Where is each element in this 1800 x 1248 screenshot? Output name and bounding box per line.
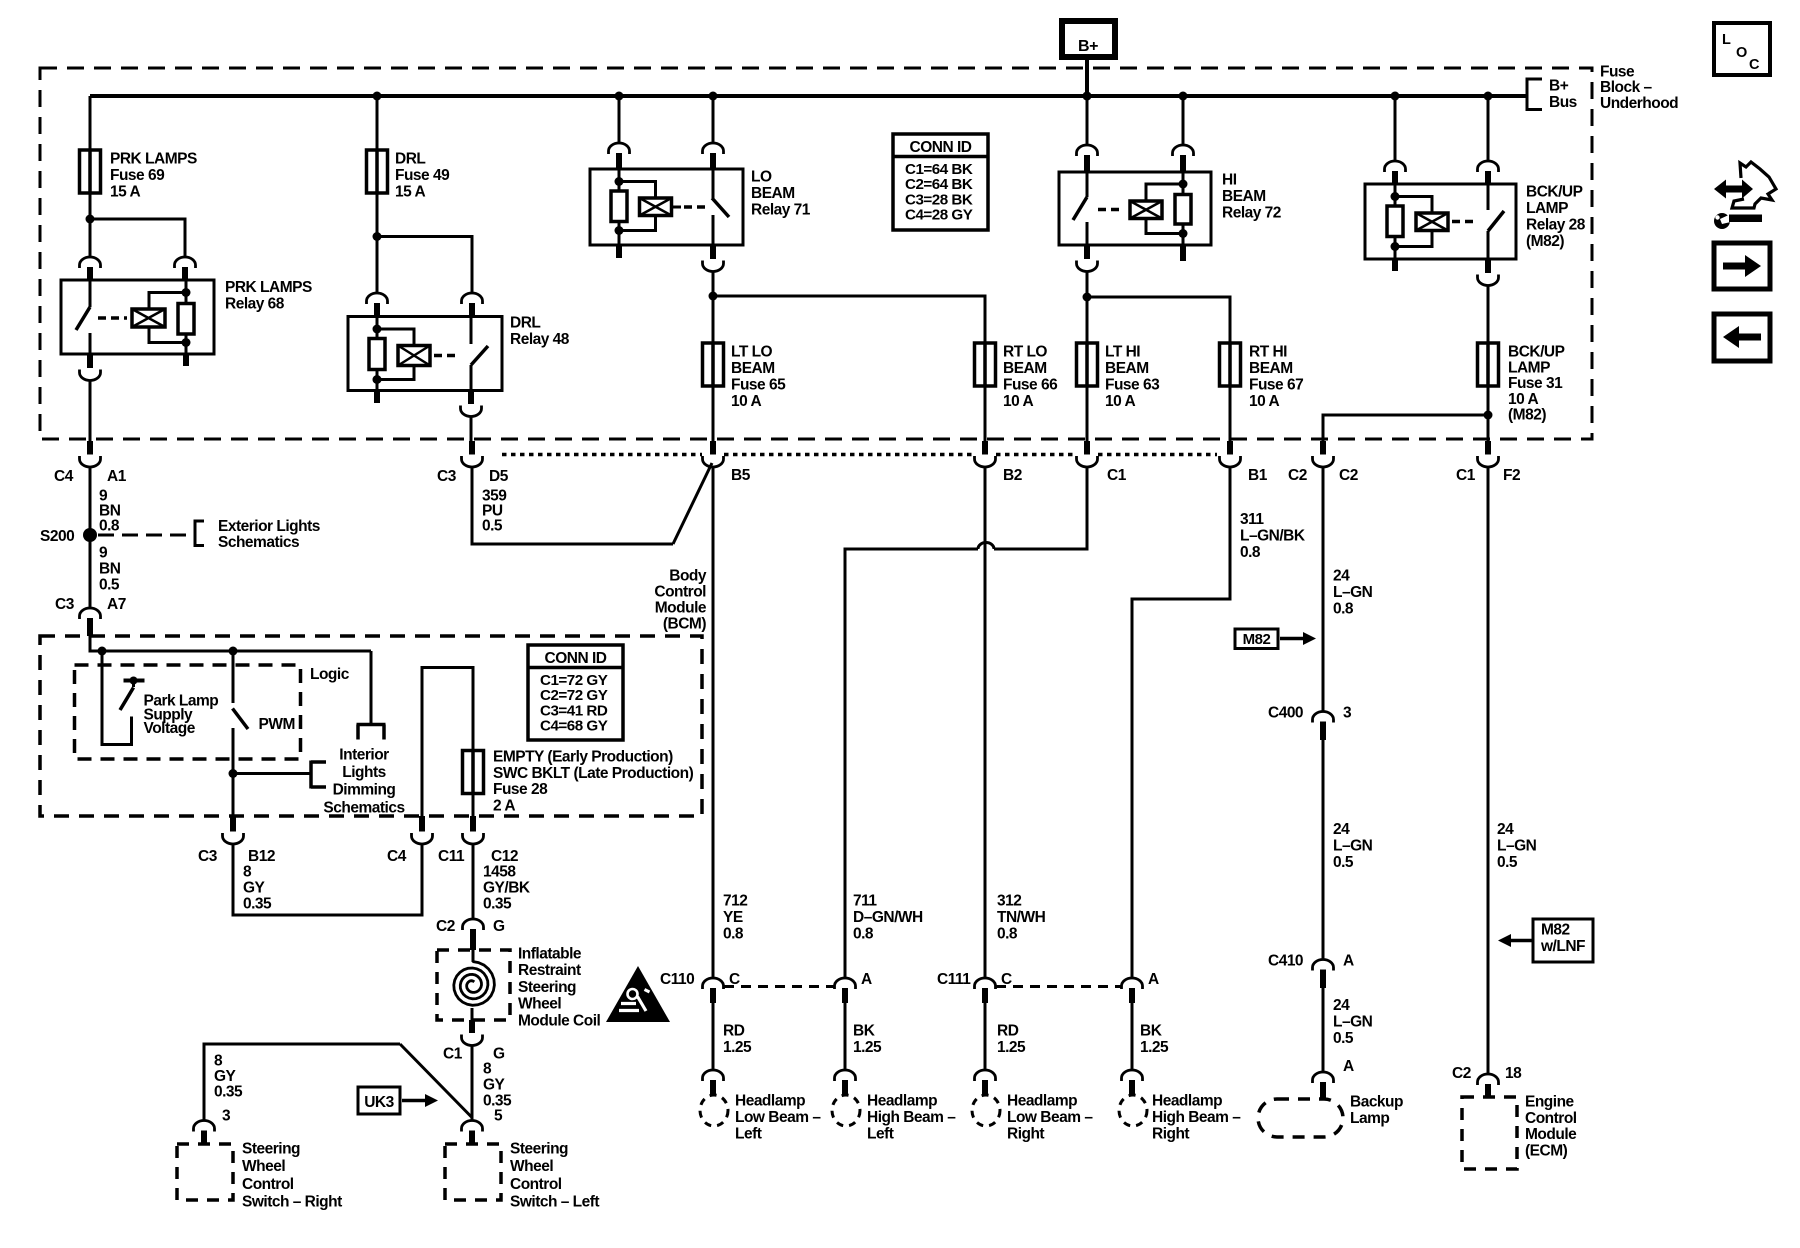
svg-text:F2: F2 bbox=[1503, 467, 1520, 484]
svg-text:Module: Module bbox=[1525, 1126, 1577, 1143]
svg-text:15 A: 15 A bbox=[395, 184, 425, 201]
svg-text:8: 8 bbox=[214, 1053, 223, 1070]
wire C12 to coil bbox=[472, 845, 475, 920]
svg-text:Right: Right bbox=[1152, 1126, 1189, 1143]
forward arrow box bbox=[1714, 243, 1770, 289]
svg-text:Backup: Backup bbox=[1350, 1094, 1403, 1111]
wire hop over B2 wire bbox=[978, 543, 994, 550]
svg-text:Control: Control bbox=[242, 1176, 294, 1193]
connector pin relay 71 right bbox=[703, 143, 724, 154]
fuse F65 LT LO BEAM 10A bbox=[703, 343, 724, 386]
node bracket dimming out bbox=[311, 761, 326, 789]
logic dashed box bbox=[75, 665, 301, 759]
wire A7 into BCM bbox=[90, 636, 371, 651]
wire B5 to C110 bbox=[712, 467, 715, 979]
svg-text:C4=28 GY: C4=28 GY bbox=[905, 207, 973, 224]
svg-text:(BCM): (BCM) bbox=[663, 616, 706, 633]
svg-text:PWM: PWM bbox=[259, 716, 295, 733]
connector pin relay 48 right bbox=[462, 293, 483, 304]
svg-text:YE: YE bbox=[723, 909, 743, 926]
svg-text:Fuse 28: Fuse 28 bbox=[493, 781, 548, 798]
svg-text:High Beam –: High Beam – bbox=[867, 1109, 956, 1126]
svg-text:24: 24 bbox=[1333, 997, 1350, 1014]
svg-text:Fuse 31: Fuse 31 bbox=[1508, 375, 1563, 392]
svg-text:L–GN: L–GN bbox=[1333, 1014, 1373, 1031]
wire to RT LO fuse bbox=[713, 296, 985, 343]
svg-text:Exterior Lights: Exterior Lights bbox=[218, 518, 320, 535]
svg-text:B+: B+ bbox=[1549, 78, 1569, 95]
junction fuse49 branch bbox=[373, 232, 382, 241]
connector C2/G coil top bbox=[463, 919, 484, 950]
connector C111 pin C bbox=[975, 978, 996, 1003]
wire logic out down bbox=[370, 651, 373, 725]
connector C1/G coil bottom bbox=[462, 1020, 483, 1046]
svg-text:A: A bbox=[1148, 971, 1159, 988]
wire F2 to ECM bbox=[1487, 467, 1490, 1075]
connector C400 pin 3 bbox=[1313, 712, 1334, 741]
svg-text:S200: S200 bbox=[40, 528, 74, 545]
connector pin relay 68 bottom-left bbox=[87, 354, 93, 368]
svg-text:BK: BK bbox=[853, 1023, 876, 1040]
svg-text:Fuse 65: Fuse 65 bbox=[731, 377, 786, 394]
svg-text:Headlamp: Headlamp bbox=[735, 1093, 805, 1110]
svg-text:GY/BK: GY/BK bbox=[483, 880, 531, 897]
svg-text:0.5: 0.5 bbox=[99, 577, 120, 594]
svg-text:DRL: DRL bbox=[510, 315, 540, 332]
svg-text:Headlamp: Headlamp bbox=[867, 1093, 937, 1110]
svg-text:Fuse 67: Fuse 67 bbox=[1249, 377, 1303, 394]
wire coil to switch left bbox=[471, 1046, 474, 1120]
svg-text:712: 712 bbox=[723, 893, 747, 910]
svg-text:C2: C2 bbox=[1452, 1065, 1471, 1082]
service icon wrench bbox=[1714, 213, 1762, 229]
relay K72 HI BEAM Relay 72 bbox=[1059, 172, 1211, 245]
junction bus HI switch bbox=[1083, 92, 1092, 101]
conn id table underhood bbox=[893, 134, 988, 230]
svg-text:BEAM: BEAM bbox=[1105, 360, 1149, 377]
clockspring spiral bbox=[454, 962, 495, 1006]
svg-text:C4=68 GY: C4=68 GY bbox=[540, 718, 608, 735]
svg-text:Relay 48: Relay 48 bbox=[510, 331, 570, 348]
connector C11/C12 bbox=[463, 816, 484, 844]
wire to lamp at x=845 bbox=[844, 1003, 847, 1070]
svg-text:C1: C1 bbox=[1107, 467, 1127, 484]
svg-text:Steering: Steering bbox=[518, 979, 576, 996]
junction backup split bbox=[1484, 411, 1493, 420]
wire relay 71 to fuses 65/66 bbox=[712, 271, 715, 343]
wire bus to relay 28 switch bbox=[1487, 96, 1490, 162]
svg-text:GY: GY bbox=[214, 1068, 237, 1085]
svg-text:C2: C2 bbox=[436, 918, 455, 935]
svg-text:Wheel: Wheel bbox=[510, 1158, 553, 1175]
svg-text:L–GN/BK: L–GN/BK bbox=[1240, 528, 1306, 545]
svg-text:10 A: 10 A bbox=[1003, 393, 1033, 410]
node B+ Bus terminal bracket bbox=[1527, 78, 1577, 112]
fuse block underhood dashed border bbox=[40, 68, 1592, 439]
lamp Low Beam – Left bbox=[700, 1095, 728, 1126]
svg-text:A: A bbox=[1343, 953, 1354, 970]
wire S200 to C3/A7 bbox=[89, 535, 92, 609]
svg-text:Fuse: Fuse bbox=[1600, 64, 1635, 81]
svg-text:LO: LO bbox=[751, 169, 772, 186]
svg-text:0.8: 0.8 bbox=[853, 926, 874, 943]
svg-text:0.35: 0.35 bbox=[243, 896, 272, 913]
svg-text:C2: C2 bbox=[1288, 467, 1307, 484]
svg-text:BEAM: BEAM bbox=[1249, 360, 1293, 377]
svg-text:0.8: 0.8 bbox=[1333, 601, 1354, 618]
wire to lamp at x=985 bbox=[984, 1003, 987, 1070]
svg-text:Steering: Steering bbox=[242, 1141, 300, 1158]
connector pin relay 28 right bbox=[1478, 161, 1499, 172]
wire bus to relay 72 switch bbox=[1086, 96, 1089, 146]
junction bus backup switch bbox=[1484, 92, 1493, 101]
svg-text:Module: Module bbox=[655, 600, 707, 617]
svg-text:G: G bbox=[493, 918, 505, 935]
svg-text:C2: C2 bbox=[1339, 467, 1358, 484]
svg-text:A: A bbox=[861, 971, 872, 988]
connector pin relay 71 bottom-right bbox=[710, 245, 716, 259]
svg-text:C12: C12 bbox=[491, 848, 518, 865]
svg-text:24: 24 bbox=[1497, 821, 1514, 838]
svg-text:B+: B+ bbox=[1078, 38, 1098, 55]
fuse F66 RT LO BEAM 10A bbox=[975, 343, 996, 386]
wire to RT HI fuse bbox=[1087, 297, 1230, 343]
svg-text:w/LNF: w/LNF bbox=[1540, 938, 1585, 955]
connector pin relay 68 right bbox=[175, 257, 196, 268]
svg-text:LT LO: LT LO bbox=[731, 344, 773, 361]
svg-text:C4: C4 bbox=[387, 848, 407, 865]
svg-text:RT HI: RT HI bbox=[1249, 344, 1287, 361]
svg-text:D5: D5 bbox=[489, 468, 509, 485]
svg-text:(M82): (M82) bbox=[1526, 233, 1564, 250]
connector C410 pin A bbox=[1313, 960, 1334, 989]
dashed link S200 to exterior lights bbox=[98, 534, 189, 537]
junction bus HI coil bbox=[1179, 92, 1188, 101]
inflatable restraint coil dashed box bbox=[437, 950, 510, 1020]
svg-text:BEAM: BEAM bbox=[1222, 188, 1266, 205]
svg-text:Control: Control bbox=[510, 1176, 562, 1193]
svg-text:M82: M82 bbox=[1541, 922, 1570, 939]
svg-text:Fuse 49: Fuse 49 bbox=[395, 167, 450, 184]
connector C3/A7 BCM bbox=[80, 608, 101, 636]
svg-text:L–GN: L–GN bbox=[1333, 584, 1373, 601]
svg-text:L–GN: L–GN bbox=[1497, 838, 1537, 855]
wire bus to relay 72 coil bbox=[1182, 96, 1185, 146]
wire branch to relay 48 switch pin bbox=[377, 237, 472, 294]
svg-text:Lamp: Lamp bbox=[1350, 1110, 1389, 1127]
pin stub relay 28 bottom-left bbox=[1392, 259, 1398, 271]
connector B5 bbox=[703, 441, 724, 467]
svg-text:15 A: 15 A bbox=[110, 184, 140, 201]
svg-text:24: 24 bbox=[1333, 821, 1350, 838]
svg-text:High Beam –: High Beam – bbox=[1152, 1109, 1241, 1126]
connector lamp pin at x=985 bbox=[975, 1070, 996, 1095]
svg-text:SWC BKLT (Late Production): SWC BKLT (Late Production) bbox=[493, 765, 694, 782]
wire coil stub top bbox=[472, 950, 475, 962]
svg-text:LAMP: LAMP bbox=[1508, 359, 1550, 376]
wire bus to fuse 49 bbox=[376, 96, 379, 150]
svg-text:CONN ID: CONN ID bbox=[545, 650, 607, 667]
connector C110 pin C bbox=[703, 978, 724, 1003]
wire B2 to C111 bbox=[984, 467, 987, 979]
wire B+ feed to bus bbox=[1085, 57, 1089, 96]
fuse F49 DRL 15A bbox=[367, 150, 388, 193]
svg-text:PRK LAMPS: PRK LAMPS bbox=[110, 151, 197, 168]
svg-text:BEAM: BEAM bbox=[1003, 360, 1047, 377]
wire D5 to BCM B5 bbox=[472, 467, 673, 545]
svg-text:C3: C3 bbox=[55, 596, 75, 613]
connector C1 hi beam bbox=[1077, 441, 1098, 467]
svg-text:Lights: Lights bbox=[342, 764, 386, 781]
svg-text:Relay 68: Relay 68 bbox=[225, 296, 285, 313]
svg-text:10 A: 10 A bbox=[731, 393, 761, 410]
svg-text:0.5: 0.5 bbox=[1333, 854, 1354, 871]
svg-text:D–GN/WH: D–GN/WH bbox=[853, 909, 923, 926]
connector C2 backup bbox=[1313, 441, 1334, 467]
UK3 option tag bbox=[358, 1087, 438, 1114]
M82 option tag bbox=[1235, 629, 1316, 649]
connector switch left pin 5 bbox=[462, 1121, 483, 1145]
svg-text:Switch – Left: Switch – Left bbox=[510, 1194, 599, 1211]
svg-text:L: L bbox=[1722, 32, 1731, 48]
BCM dotted boundary line bbox=[502, 453, 702, 457]
svg-text:C110: C110 bbox=[660, 971, 694, 988]
connector pin relay 48 left bbox=[367, 293, 388, 304]
wire diagonal to switch left bbox=[400, 1044, 472, 1117]
svg-text:2 A: 2 A bbox=[493, 797, 515, 814]
svg-text:0.5: 0.5 bbox=[1333, 1030, 1354, 1047]
wire A1 to S200 bbox=[89, 467, 92, 536]
svg-text:Left: Left bbox=[735, 1126, 762, 1143]
junction lo beam split bbox=[709, 292, 718, 301]
junction pwm out bbox=[229, 769, 238, 778]
node bracket logic out bbox=[357, 725, 386, 740]
svg-text:RT LO: RT LO bbox=[1003, 344, 1047, 361]
svg-text:Module Coil: Module Coil bbox=[518, 1012, 601, 1029]
svg-text:311: 311 bbox=[1240, 511, 1264, 528]
svg-text:C: C bbox=[1749, 57, 1760, 73]
conn id table BCM bbox=[528, 645, 623, 740]
svg-text:BEAM: BEAM bbox=[731, 360, 775, 377]
svg-text:3: 3 bbox=[222, 1108, 231, 1125]
fuse F63 LT HI BEAM 10A bbox=[1077, 343, 1098, 386]
svg-text:Body: Body bbox=[669, 568, 707, 585]
relay K28 BCK/UP LAMP Relay 28 bbox=[1365, 184, 1516, 259]
wire branch to C2 connector bbox=[1323, 415, 1488, 441]
svg-text:GY: GY bbox=[243, 880, 266, 897]
svg-text:8: 8 bbox=[483, 1061, 492, 1078]
wire relay 28 to fuse 31 bbox=[1487, 285, 1490, 343]
connector backup lamp pin A bbox=[1313, 1072, 1334, 1099]
connector lamp pin at x=713 bbox=[703, 1070, 724, 1095]
svg-text:UK3: UK3 bbox=[364, 1094, 394, 1111]
splice S200 bbox=[83, 528, 97, 542]
svg-text:(M82): (M82) bbox=[1508, 407, 1546, 424]
connector C4 BCM bottom bbox=[412, 816, 433, 844]
wire BCM internal to fuse 28 bbox=[422, 668, 473, 817]
svg-text:9: 9 bbox=[99, 545, 108, 562]
wire to lamp at x=713 bbox=[712, 1003, 715, 1070]
svg-text:BCK/UP: BCK/UP bbox=[1508, 344, 1565, 361]
svg-text:Headlamp: Headlamp bbox=[1152, 1093, 1222, 1110]
junction park lamp branch bbox=[98, 647, 107, 656]
wire C410 to backup lamp bbox=[1322, 988, 1325, 1073]
svg-text:10 A: 10 A bbox=[1105, 393, 1135, 410]
wire bus to relay 71 coil bbox=[618, 96, 621, 144]
svg-text:(ECM): (ECM) bbox=[1525, 1142, 1568, 1159]
svg-text:L–GN: L–GN bbox=[1333, 838, 1373, 855]
junction bus DRL bbox=[373, 92, 382, 101]
svg-text:C3: C3 bbox=[437, 468, 457, 485]
junction pwm branch bbox=[229, 647, 238, 656]
wire C1 to high beam left bbox=[994, 467, 1087, 550]
svg-text:Inflatable: Inflatable bbox=[518, 946, 582, 963]
wire pwm junction to B12 bbox=[232, 774, 235, 817]
svg-text:B12: B12 bbox=[248, 848, 275, 865]
svg-text:A7: A7 bbox=[107, 596, 126, 613]
svg-text:C410: C410 bbox=[1268, 953, 1303, 970]
svg-text:B5: B5 bbox=[731, 467, 751, 484]
svg-text:3: 3 bbox=[1343, 705, 1352, 722]
svg-text:Headlamp: Headlamp bbox=[1007, 1093, 1077, 1110]
connector C111 pin A bbox=[1122, 978, 1143, 1003]
wire B1 to high beam right bbox=[1132, 467, 1230, 979]
svg-text:Schematics: Schematics bbox=[218, 534, 299, 551]
svg-text:GY: GY bbox=[483, 1077, 506, 1094]
wire fuse 69 to relay 68 pins bbox=[89, 193, 92, 258]
fuse F67 RT HI BEAM 10A bbox=[1220, 343, 1241, 386]
wire to high beam left drop bbox=[845, 549, 978, 978]
wire right switch feed bbox=[204, 1044, 400, 1120]
B+ power symbol bbox=[1062, 21, 1115, 57]
steering wheel control switch right dashed box bbox=[177, 1144, 233, 1200]
svg-text:Switch – Right: Switch – Right bbox=[242, 1194, 342, 1211]
svg-text:Right: Right bbox=[1007, 1126, 1044, 1143]
svg-text:1.25: 1.25 bbox=[1140, 1039, 1169, 1056]
wire fuse 49 down bbox=[376, 193, 379, 294]
label Interior Lights Dimming Schematics bbox=[323, 746, 404, 816]
svg-text:A: A bbox=[1343, 1058, 1354, 1075]
svg-text:Steering: Steering bbox=[510, 1141, 568, 1158]
connector C3/B12 bbox=[223, 816, 244, 844]
dashed connector link C110 bbox=[724, 985, 834, 988]
svg-text:A1: A1 bbox=[107, 468, 127, 485]
steering wheel control switch left dashed box bbox=[445, 1144, 501, 1200]
lamp High Beam – Left bbox=[832, 1095, 860, 1126]
back arrow box bbox=[1714, 314, 1770, 361]
backup lamp dashed outline bbox=[1258, 1099, 1343, 1137]
pin stub relay 68 bottom-right bbox=[183, 354, 189, 366]
connector pin relay 28 left bbox=[1385, 161, 1406, 172]
wire fuse 65 to B5 bbox=[712, 386, 715, 441]
svg-text:10 A: 10 A bbox=[1508, 391, 1538, 408]
wire C2 to C400 bbox=[1322, 467, 1325, 713]
wire diagonal to B5 bbox=[673, 463, 712, 544]
wire fuse 67 to B1 bbox=[1229, 386, 1232, 441]
svg-text:RD: RD bbox=[723, 1023, 745, 1040]
svg-text:Interior: Interior bbox=[339, 746, 389, 763]
svg-text:Dimming: Dimming bbox=[333, 782, 396, 799]
svg-text:1458: 1458 bbox=[483, 864, 516, 881]
wire fuse 28 to C12 bbox=[472, 794, 475, 817]
lamp High Beam – Right bbox=[1119, 1095, 1147, 1126]
connector B2 bbox=[975, 441, 996, 467]
body control module dashed border bbox=[40, 636, 702, 816]
pin stub relay 72 bottom-right bbox=[1180, 245, 1186, 261]
svg-text:C11: C11 bbox=[438, 848, 465, 865]
svg-text:0.5: 0.5 bbox=[482, 518, 503, 535]
junction bus LO coil bbox=[615, 92, 624, 101]
connector pin relay 28 bottom-right bbox=[1485, 259, 1491, 273]
svg-text:Low Beam –: Low Beam – bbox=[735, 1109, 821, 1126]
svg-text:CONN ID: CONN ID bbox=[910, 139, 972, 156]
wire C400 to C410 bbox=[1322, 740, 1325, 960]
service icon outline arrow bbox=[1732, 162, 1776, 208]
svg-text:Control: Control bbox=[654, 584, 706, 601]
svg-text:Relay 72: Relay 72 bbox=[1222, 205, 1281, 222]
junction B+ bus entry bbox=[1083, 92, 1092, 101]
svg-text:HI: HI bbox=[1222, 172, 1237, 189]
node bracket Exterior Lights bbox=[195, 520, 204, 548]
fuse F28 SWC BKLT 2A bbox=[463, 751, 484, 794]
connector C4/A1 fuse block bbox=[80, 441, 101, 467]
svg-text:10 A: 10 A bbox=[1249, 393, 1279, 410]
LOC legend box bbox=[1714, 23, 1770, 75]
connector B1 bbox=[1220, 441, 1241, 467]
svg-text:Schematics: Schematics bbox=[323, 799, 404, 816]
junction bus LO switch bbox=[709, 92, 718, 101]
engine control module dashed box bbox=[1462, 1097, 1517, 1169]
connector C110 pin A bbox=[835, 978, 856, 1003]
svg-text:Wheel: Wheel bbox=[242, 1158, 285, 1175]
junction fuse69/relay branch bbox=[86, 215, 95, 224]
SIR caution triangle bbox=[606, 966, 670, 1022]
svg-text:C111: C111 bbox=[937, 971, 971, 988]
svg-text:G: G bbox=[493, 1046, 505, 1063]
svg-text:Underhood: Underhood bbox=[1600, 95, 1678, 112]
svg-text:Restraint: Restraint bbox=[518, 962, 581, 979]
svg-text:312: 312 bbox=[997, 893, 1021, 910]
svg-text:8: 8 bbox=[243, 864, 252, 881]
junction hi beam split bbox=[1083, 293, 1092, 302]
svg-text:0.35: 0.35 bbox=[483, 896, 512, 913]
svg-text:M82: M82 bbox=[1243, 631, 1271, 648]
svg-text:Engine: Engine bbox=[1525, 1094, 1575, 1111]
relay K68 PRK LAMPS Relay 68 bbox=[61, 280, 214, 354]
svg-text:RD: RD bbox=[997, 1023, 1019, 1040]
svg-text:1.25: 1.25 bbox=[997, 1039, 1026, 1056]
svg-text:711: 711 bbox=[853, 893, 877, 910]
M82 w/LNF option tag bbox=[1498, 919, 1593, 962]
pin stub relay 71 bottom-left bbox=[616, 245, 622, 258]
connector pin relay 48 bottom-right bbox=[468, 391, 474, 405]
svg-text:Wheel: Wheel bbox=[518, 996, 561, 1013]
svg-text:0.5: 0.5 bbox=[1497, 854, 1518, 871]
svg-text:BEAM: BEAM bbox=[751, 185, 795, 202]
fuse F31 BCK/UP LAMP 10A bbox=[1478, 343, 1499, 386]
connector C3/D5 fuse block bbox=[462, 441, 483, 467]
wire B12 to C4 loop bbox=[233, 845, 422, 916]
wire bus to fuse 69 bbox=[89, 96, 92, 150]
wire fuse 63 to C1 bbox=[1086, 386, 1089, 441]
svg-text:Relay 71: Relay 71 bbox=[751, 202, 811, 219]
svg-text:0.8: 0.8 bbox=[997, 926, 1018, 943]
svg-text:Control: Control bbox=[1525, 1110, 1577, 1127]
connector lamp pin at x=1132 bbox=[1122, 1070, 1143, 1095]
wire bus to relay 28 coil bbox=[1394, 96, 1397, 162]
wire coil stub bottom bbox=[471, 1008, 474, 1020]
svg-text:0.8: 0.8 bbox=[99, 518, 120, 535]
